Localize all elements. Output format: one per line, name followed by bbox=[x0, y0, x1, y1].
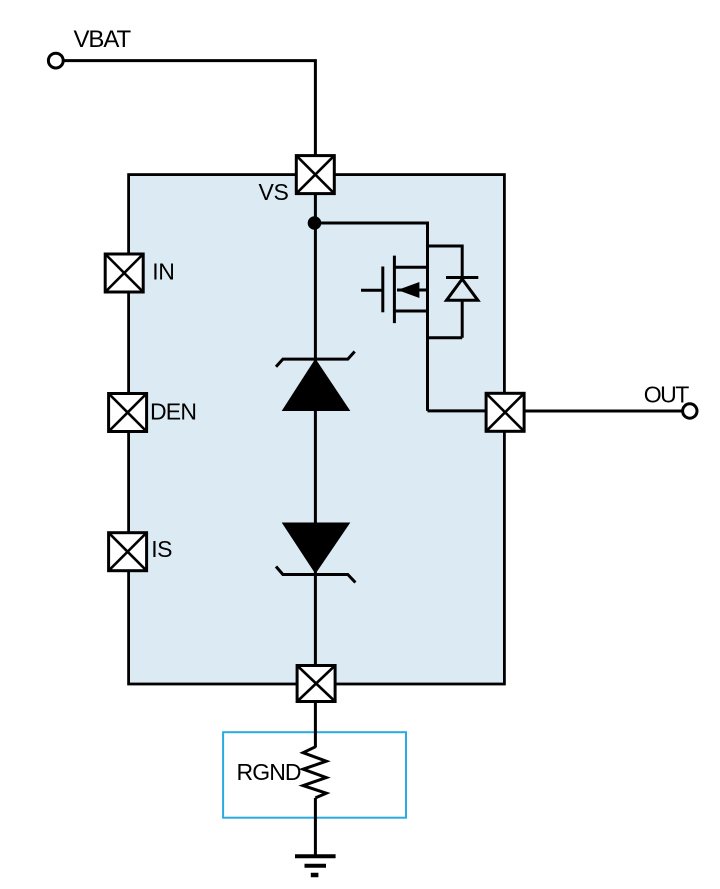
body diode D1 top branch bbox=[428, 245, 463, 248]
pin VS bbox=[296, 156, 334, 194]
body diode D1 triangle bbox=[447, 279, 478, 300]
wire GND pin to resistor bbox=[314, 703, 317, 748]
transistor Q1 source arrow head bbox=[398, 282, 420, 298]
transistor Q1 drain lead bbox=[394, 266, 427, 269]
pin IS bbox=[109, 533, 147, 571]
resistor RGND bbox=[303, 747, 326, 798]
pin IN bbox=[105, 254, 143, 292]
transistor Q1 gate bar bbox=[381, 267, 384, 313]
RGND enclosure box bbox=[223, 732, 406, 818]
svg-text:IS: IS bbox=[151, 536, 172, 562]
node A junction dot bbox=[308, 216, 322, 230]
terminal VBAT bbox=[48, 53, 63, 68]
zener diode D3 cathode bar bbox=[276, 567, 355, 583]
svg-text:IN: IN bbox=[152, 259, 174, 285]
wire rail to OUT pin bbox=[428, 409, 487, 412]
pin OUT bbox=[486, 393, 524, 431]
IC block body U1 bbox=[129, 175, 505, 684]
pin GND (bottom) bbox=[297, 666, 335, 702]
svg-text:VS: VS bbox=[259, 179, 289, 205]
pin DEN bbox=[109, 394, 147, 432]
transistor Q1 source lead bbox=[394, 310, 427, 313]
svg-text:OUT: OUT bbox=[644, 382, 690, 408]
transistor Q1 source arrow line bbox=[397, 289, 428, 292]
svg-text:DEN: DEN bbox=[150, 399, 196, 425]
wire OUT pin to terminal bbox=[526, 410, 683, 413]
terminal OUT bbox=[683, 404, 697, 418]
svg-text:VBAT: VBAT bbox=[74, 26, 132, 53]
wire drain rail (vertical) bbox=[426, 222, 429, 411]
ground bbox=[295, 856, 336, 875]
body diode D1 cathode wire bbox=[461, 245, 464, 278]
zener diode D2 cathode bar bbox=[276, 352, 355, 367]
zener diode D3 triangle bbox=[283, 523, 350, 573]
body diode D1 anode wire bbox=[461, 300, 464, 338]
body diode D1 cathode bar bbox=[446, 276, 478, 279]
body diode D1 bottom branch bbox=[428, 336, 463, 339]
transistor Q1 channel bar bbox=[393, 256, 396, 324]
transistor Q1 gate lead bbox=[361, 289, 383, 292]
svg-text:RGND: RGND bbox=[237, 759, 301, 785]
wire node A to drain rail bbox=[315, 222, 428, 225]
zener diode D2 triangle bbox=[283, 360, 350, 411]
wire resistor to ground bbox=[314, 798, 317, 856]
wire VS pin to GND pin (through zeners) bbox=[314, 195, 317, 665]
wire VBAT to VS pin bbox=[64, 61, 315, 155]
